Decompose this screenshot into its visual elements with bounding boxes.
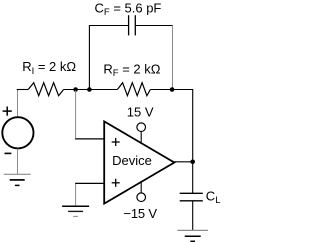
op-amp U1 triangle — [104, 121, 174, 203]
node dot: inverting input junction — [73, 87, 78, 92]
node dot: RF right junction — [170, 87, 175, 92]
capacitor CL plates — [180, 193, 203, 201]
wire: non-inverting input down to ground (vertical) — [75, 184, 77, 206]
wire: source up to node row (vertical) — [17, 90, 19, 117]
wire: pin into op-amp top edge — [140, 132, 142, 145]
resistor RF zigzag — [117, 83, 150, 96]
resistor RI zigzag — [28, 83, 63, 96]
svg-text:Device: Device — [112, 153, 152, 168]
wire: RF to right corner, down to output node — [150, 90, 192, 162]
wire: source bottom to ground — [17, 149, 19, 175]
negative supply pin circle — [137, 193, 146, 202]
wire: non-inverting input stub — [75, 182, 104, 184]
capacitor CF plates — [129, 15, 136, 35]
ground (CL) — [177, 230, 208, 241]
wire: CF right plate across top — [135, 25, 172, 27]
wire: output node down to CL — [192, 162, 194, 193]
wire: inverting input stub — [75, 138, 104, 140]
wire: CF loop right vertical down to RF right node — [172, 26, 174, 89]
wire: op-amp bottom edge to pin — [140, 181, 142, 193]
wire: corner across to RI — [17, 89, 29, 91]
ground (source) — [4, 174, 31, 185]
positive supply pin circle — [137, 123, 146, 132]
wire: feedback loop top-left (node up, across to CF left plate) — [89, 26, 128, 90]
wire: node down to inverting input (vertical) — [75, 91, 77, 139]
voltage source VIN circle — [2, 117, 33, 148]
ground (non-inverting input) — [62, 206, 89, 216]
op-amp + (top input) — [112, 138, 120, 146]
wire: op-amp output to node — [174, 161, 192, 163]
wire: CL bottom to ground — [192, 201, 194, 231]
source - sign — [5, 152, 12, 154]
svg-text:15 V: 15 V — [127, 104, 154, 119]
svg-text:−15 V: −15 V — [124, 206, 158, 221]
source + sign — [3, 107, 12, 116]
node dot: output junction — [190, 160, 195, 165]
node dot: CF loop left junction — [87, 87, 92, 92]
wire: RI to RF across node row — [64, 89, 118, 91]
op-amp + (bottom input) — [112, 179, 120, 187]
